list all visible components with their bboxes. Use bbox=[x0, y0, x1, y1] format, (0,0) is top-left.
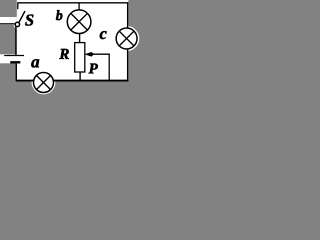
lamp a: cross bbox=[36, 75, 50, 89]
label b bbox=[56, 10, 62, 20]
wire: right border bottom segment bbox=[127, 49, 129, 81]
wire: switch down to battery bbox=[15, 26, 17, 55]
wire: rheostat bottom to bottom border bbox=[79, 72, 81, 81]
lamp b: cross bbox=[71, 13, 88, 30]
label S bbox=[25, 14, 33, 25]
label R bbox=[59, 49, 69, 59]
switch S: pivot circle bbox=[15, 22, 19, 26]
rheostat wiper P: arrow shaft and tail down to bottom border bbox=[91, 54, 110, 80]
battery: short thick negative plate bbox=[10, 61, 20, 63]
battery: long positive plate bbox=[4, 55, 24, 57]
wire: top border of loop bbox=[17, 2, 128, 4]
rheostat wiper P: arrowhead bbox=[85, 52, 93, 56]
wire: lamp b to rheostat R bbox=[79, 33, 81, 42]
wire: switch fixed-contact stub from top-left corner bbox=[17, 3, 19, 9]
rheostat R: body bbox=[75, 43, 85, 72]
white figure pad: battery band bbox=[0, 54, 25, 63]
wire: stub from top border down to lamp b bbox=[78, 3, 80, 10]
wire: battery down to bottom border bbox=[15, 64, 17, 81]
switch S: blade (open) bbox=[19, 11, 25, 22]
lamp c: bulb circle bbox=[116, 28, 137, 49]
lamp a: bulb circle bbox=[34, 73, 54, 93]
wire: bottom border of loop bbox=[16, 80, 129, 82]
lamp c: cross bbox=[119, 31, 134, 46]
label a bbox=[31, 59, 39, 67]
gray page background bbox=[0, 0, 149, 96]
label P bbox=[89, 64, 98, 74]
white figure pad: main circuit area bbox=[17, 0, 129, 81]
white figure pad: lamp a halo bbox=[32, 71, 56, 95]
label c bbox=[100, 31, 107, 39]
lamp b: bulb circle bbox=[67, 10, 91, 34]
wire: lead-in to switch from left edge bbox=[0, 23, 15, 25]
white figure pad: switch lead-in band bbox=[0, 17, 17, 25]
white figure pad: lamp c halo bbox=[114, 26, 139, 51]
wire: right border top segment bbox=[127, 2, 129, 28]
white figure pad: switch pivot halo bbox=[13, 20, 21, 28]
